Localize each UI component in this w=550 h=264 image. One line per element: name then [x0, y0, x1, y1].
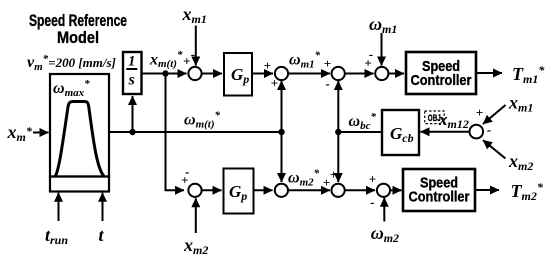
summing junction S3 [332, 67, 345, 80]
block: integrator 1/s [123, 52, 142, 94]
wire: omega_m(t)* line from block to branch dot [109, 131, 282, 133]
wire: 1/s output to sum S1 [142, 73, 187, 75]
block: Gcb [382, 110, 419, 155]
block: speed reference model bottom strip [50, 177, 109, 192]
svg-text:Model: Model [57, 28, 99, 47]
wire: vertical omega_m(t) branch down to S2' [281, 132, 283, 182]
wire: S4' to speed controller bottom [390, 189, 401, 191]
node: omega_m(t) branch dot [278, 129, 284, 135]
wire: S2 to S3 [288, 73, 330, 75]
wire: x_m(t)* down to bottom sum S1' [166, 74, 185, 191]
wire: x_m1 down into S1 [195, 26, 197, 66]
wire: Gp' to S2' [254, 189, 273, 191]
svg-text:s: s [128, 71, 135, 88]
block: speed reference model main box [50, 74, 109, 177]
wire: S2' to S3' [288, 189, 330, 191]
summing junction S2 [275, 67, 288, 80]
wire: S1' to Gp' [202, 189, 222, 191]
block: Gp bottom [224, 169, 254, 214]
wire: up into 1/s [132, 96, 134, 132]
summing junction S1' [188, 184, 201, 197]
wire: Gcb output to branch [338, 131, 382, 133]
wire: x_m2 up into S1' [195, 198, 197, 233]
wire: t up arrow [102, 193, 104, 221]
svg-text:+: + [364, 56, 371, 71]
wire: t_run up arrow [58, 193, 60, 221]
block: speed controller top [406, 52, 476, 94]
svg-text:+: + [324, 56, 331, 71]
svg-text:+: + [476, 105, 483, 120]
wire: controller output Tm1* [476, 72, 502, 74]
wire: x_m1 diagonal into S5 [483, 105, 506, 124]
svg-text:-: - [370, 194, 374, 209]
wire: S4 to speed controller [388, 73, 404, 75]
wire: xm* input arrow [33, 132, 49, 134]
svg-text:+: + [181, 172, 188, 187]
svg-text:-: - [191, 46, 195, 61]
wire: x_m2 diagonal into S5 [483, 140, 506, 158]
svg-text:1: 1 [128, 53, 135, 69]
svg-text:Controller: Controller [411, 72, 472, 89]
label OBJ dashed artifact [425, 111, 445, 124]
svg-text:-: - [487, 122, 491, 137]
block: Gp top [224, 53, 252, 96]
svg-text:-: - [326, 76, 330, 91]
wire: Gp to S2 [252, 73, 273, 75]
wire: vertical omega_m(t) branch up to S2 [281, 81, 283, 132]
wire: omega_m1 down into S4 [381, 33, 383, 66]
svg-text:+: + [369, 172, 376, 187]
summing junction S4 [375, 67, 388, 80]
svg-text:+: + [264, 58, 271, 73]
wire: x_m12 into Gcb [421, 131, 470, 133]
wire: controller output Tm2* [475, 189, 499, 191]
node: omega_bc branch dot [335, 129, 341, 135]
node: branch below 1/s [129, 129, 135, 135]
wire: omega_bc* branch down to S3' [337, 132, 339, 182]
svg-text:+: + [183, 54, 190, 69]
summing junction S1 [188, 67, 201, 80]
node: branch on x_m(t)* line [162, 70, 168, 76]
wire: omega_m2 up into S4' [383, 198, 385, 222]
trapezoid speed profile [56, 102, 104, 177]
wire: omega_bc* branch up to S3 [337, 81, 339, 132]
block: speed controller bottom [403, 169, 475, 211]
summing junction S5 x_m12 [470, 125, 484, 139]
wire: S3' to S4' [345, 189, 375, 191]
wire: S1 to Gp [202, 73, 222, 75]
wire: S3 to S4 [345, 73, 374, 75]
summing junction S3' [332, 184, 345, 197]
summing junction S4' [377, 184, 390, 197]
svg-text:Controller: Controller [409, 189, 470, 206]
svg-text:+: + [330, 167, 337, 182]
summing junction S2' [275, 184, 288, 197]
